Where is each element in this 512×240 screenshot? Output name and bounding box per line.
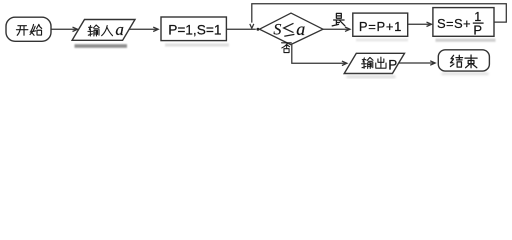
label S (italic)	[273, 19, 305, 39]
wire: P=P+1 -> S=S+1/P	[408, 22, 432, 26]
wire: decision -> P=P+1 (yes branch)	[323, 27, 350, 31]
svg-text:S: S	[273, 21, 281, 38]
process box: P=P+1	[353, 13, 408, 36]
svg-text:P: P	[473, 22, 482, 37]
wire: init box -> decision	[226, 28, 255, 30]
svg-text:P=P+1: P=P+1	[359, 19, 402, 34]
wire: decision bottom -> output (no branch)	[292, 45, 347, 66]
shadow under input parallelogram	[75, 44, 128, 48]
label 结束	[450, 55, 477, 68]
process box: S=S+1/P	[433, 8, 494, 37]
junction dot at decision entry	[256, 28, 259, 31]
wire: input -> init box	[129, 27, 158, 31]
label 输出P	[362, 57, 398, 72]
terminator: 开始 (start)	[6, 17, 51, 41]
label 是 (yes)	[332, 13, 345, 25]
shadow under S=S+1/P box	[436, 39, 496, 42]
svg-text:P=1,S=1: P=1,S=1	[168, 23, 221, 38]
slanted leq symbol	[284, 23, 295, 36]
label S=S+	[437, 10, 482, 37]
fraction bar	[473, 22, 484, 24]
process box: P=1,S=1	[161, 17, 226, 41]
decision diamond: S <= a	[260, 13, 324, 44]
label 输入a	[88, 20, 124, 39]
parallelogram: 输入a (input a)	[72, 20, 135, 41]
label 否 (no)	[282, 43, 292, 53]
shadow under end terminator	[442, 73, 489, 76]
svg-text:a: a	[115, 20, 124, 39]
feedback loop wire: S box -> top -> decision entry	[250, 4, 507, 29]
shadow under init box	[165, 43, 229, 46]
wire: start -> input	[51, 27, 78, 31]
terminator: 结束 (end)	[438, 50, 489, 71]
svg-text:P: P	[388, 58, 397, 73]
shadow under output parallelogram	[347, 75, 396, 78]
parallelogram: 输出P (output P)	[344, 53, 404, 73]
shadow under P=P+1 box	[356, 39, 408, 42]
label 开始	[16, 24, 41, 35]
wire: output -> end	[399, 61, 435, 65]
svg-text:a: a	[296, 19, 305, 39]
svg-text:S=S+: S=S+	[437, 16, 471, 31]
